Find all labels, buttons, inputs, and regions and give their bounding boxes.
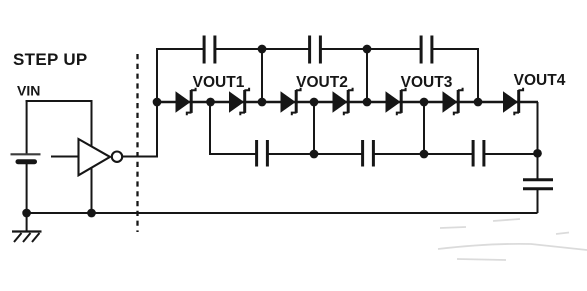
wire inverter output bbox=[122, 156, 158, 158]
junction N5 bbox=[420, 98, 429, 107]
junction ground node bbox=[22, 209, 31, 218]
wire battery bottom lead bbox=[26, 164, 28, 213]
junction inverter ground node bbox=[87, 209, 96, 218]
wire top row seg 3 bbox=[320, 48, 421, 50]
junction N3 bbox=[310, 98, 319, 107]
junction N6 bbox=[474, 98, 483, 107]
svg-text:VIN: VIN bbox=[17, 83, 40, 99]
capacitor C5 bbox=[363, 140, 374, 167]
wire output vertical lower bbox=[537, 190, 539, 213]
capacitor C2 bbox=[310, 36, 321, 64]
capacitor C4 bbox=[257, 140, 268, 167]
svg-text:VOUT2: VOUT2 bbox=[296, 74, 348, 91]
wire bottom row seg 1 bbox=[209, 153, 257, 155]
schottky diode D7 bbox=[504, 88, 524, 115]
junction output node bbox=[533, 149, 542, 158]
junction N2 bbox=[258, 98, 267, 107]
wire vertical N3 bbox=[313, 102, 315, 155]
junction bottom row node C bbox=[310, 150, 319, 159]
wire vertical N5 bbox=[423, 102, 425, 155]
capacitor C7 output bbox=[523, 180, 553, 189]
wire inverter supply vertical bbox=[91, 101, 93, 213]
junction N4 bbox=[363, 98, 372, 107]
schottky diode D2 bbox=[230, 88, 250, 115]
schottky diode D5 bbox=[386, 88, 406, 115]
battery B1 bbox=[11, 154, 41, 161]
junction bottom row node D bbox=[420, 150, 429, 159]
svg-text:VOUT4: VOUT4 bbox=[514, 72, 566, 89]
capacitor C3 bbox=[421, 36, 432, 64]
wire bottom row seg 4 bbox=[484, 153, 538, 155]
wire top row seg 2 bbox=[215, 48, 310, 50]
capacitor C1 bbox=[204, 36, 215, 64]
junction top row node A bbox=[258, 45, 267, 54]
wire vertical N6 bbox=[477, 48, 479, 102]
dashed boundary bbox=[136, 54, 138, 232]
inverter U1 bbox=[51, 139, 122, 175]
junction N1 bbox=[206, 98, 215, 107]
wire bottom ground rail bbox=[27, 212, 538, 214]
schottky diode D6 bbox=[443, 88, 463, 115]
schottky diode D3 bbox=[281, 88, 301, 115]
wire top row seg 1 bbox=[156, 48, 204, 50]
svg-text:STEP UP: STEP UP bbox=[13, 50, 88, 69]
wire vertical N2 bbox=[261, 49, 263, 102]
wire vertical N4 bbox=[366, 49, 368, 102]
junction top row node B bbox=[363, 45, 372, 54]
schottky diode D1 bbox=[176, 88, 196, 115]
wire output vertical upper bbox=[537, 102, 539, 180]
wire VIN top horizontal bbox=[26, 100, 93, 102]
capacitor C6 bbox=[473, 140, 484, 167]
schottky diode D4 bbox=[333, 88, 353, 115]
ground bbox=[12, 213, 42, 242]
wire bottom row seg 3 bbox=[373, 153, 473, 155]
wire top row seg 4 bbox=[432, 48, 479, 50]
svg-text:VOUT3: VOUT3 bbox=[401, 74, 453, 91]
wire diode chain rail bbox=[157, 101, 538, 104]
wire vertical N1 bbox=[209, 102, 211, 155]
junction N0 bbox=[153, 98, 162, 107]
wire bottom row seg 2 bbox=[267, 153, 362, 155]
svg-text:VOUT1: VOUT1 bbox=[193, 74, 245, 91]
wire pump input vertical bbox=[156, 49, 158, 157]
wire battery top lead bbox=[26, 100, 28, 154]
